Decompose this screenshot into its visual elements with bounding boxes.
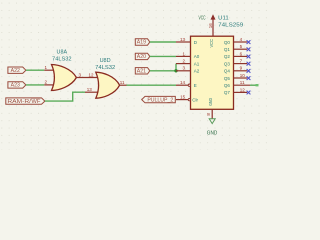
svg-text:74LS32: 74LS32 [52, 56, 72, 62]
svg-text:Q2: Q2 [224, 54, 231, 59]
svg-text:A23: A23 [11, 83, 20, 89]
svg-text:15: 15 [180, 95, 186, 100]
global label A23 [8, 82, 26, 88]
global label A20 [135, 53, 150, 59]
svg-text:VCC: VCC [209, 38, 214, 47]
svg-text:U8A: U8A [57, 49, 68, 55]
svg-text:A22: A22 [11, 68, 20, 74]
no-connect Q0 [247, 40, 251, 44]
pin 3 (A2) [176, 70, 191, 72]
IC U11 body [191, 36, 234, 109]
pin 9 (Q4) [234, 70, 248, 72]
svg-text:16: 16 [208, 23, 213, 29]
no-connect Q1 [247, 47, 251, 51]
or-gate U8D [96, 72, 120, 98]
svg-text:GND: GND [207, 130, 218, 136]
pin 5 (Q1) [234, 48, 248, 50]
svg-text:11: 11 [240, 80, 245, 85]
pin 11 (Q6) [234, 84, 251, 86]
svg-text:11: 11 [120, 80, 125, 85]
svg-text:A20: A20 [137, 54, 146, 60]
wire RAM-R/WF to U8D pin13 [45, 92, 85, 101]
svg-text:Q1: Q1 [224, 47, 231, 52]
svg-text:Clr: Clr [192, 97, 198, 102]
pin 14 (E) with bubble [176, 84, 188, 86]
junction node [174, 69, 177, 72]
svg-text:U8D: U8D [100, 58, 111, 64]
svg-text:14: 14 [180, 80, 186, 85]
pin 15 (Clr) with bubble [176, 99, 188, 101]
svg-text:Q4: Q4 [224, 69, 231, 74]
pin 13 (D) [176, 41, 191, 43]
pin 3 of U8A / pin 12 of U8D [76, 77, 99, 79]
global label RAM-R/WF [6, 98, 45, 104]
wire U8D out to U11 E pin [127, 84, 177, 86]
svg-text:74LS32: 74LS32 [95, 65, 115, 71]
wire A20 to U11 A0 [150, 55, 176, 57]
wire A21 to U11 A2 [150, 70, 176, 72]
pin 1 of U8A [44, 69, 55, 71]
svg-text:A19: A19 [137, 40, 146, 46]
wire A19 to U11 D [150, 41, 176, 43]
wire A22 to U8A pin1 [26, 69, 44, 71]
svg-text:Q7: Q7 [224, 90, 231, 95]
svg-text:13: 13 [87, 87, 93, 92]
global label PULLUP_2 [142, 96, 176, 102]
global label A21 [135, 68, 150, 74]
svg-text:13: 13 [180, 37, 186, 42]
global label A19 [135, 39, 150, 45]
no-connect Q3 [247, 62, 251, 66]
GND power symbol pin8 [211, 109, 213, 118]
pin 7 (Q3) [234, 63, 248, 65]
pin 6 (Q2) [234, 55, 248, 57]
svg-text:A1: A1 [194, 61, 200, 66]
svg-text:WF: WF [31, 99, 40, 105]
svg-text:RAM-R/: RAM-R/ [7, 99, 31, 105]
wire stub Q6 [250, 84, 259, 86]
pin 13 of U8D [85, 91, 99, 93]
wire junction up to A1 [175, 64, 177, 71]
svg-text:A0: A0 [194, 54, 200, 59]
pin 10 (Q5) [234, 77, 248, 79]
svg-text:GND: GND [208, 97, 213, 105]
svg-text:A21: A21 [137, 69, 146, 75]
svg-text:VCC: VCC [199, 16, 206, 22]
no-connect Q5 [247, 76, 251, 80]
global label A22 [8, 67, 26, 73]
pin 4 (Q0) [234, 41, 248, 43]
svg-text:PULLUP_2: PULLUP_2 [147, 98, 173, 104]
svg-text:12: 12 [240, 87, 246, 92]
svg-text:U11: U11 [218, 16, 229, 22]
no-connect Q4 [247, 69, 251, 73]
svg-text:Q5: Q5 [224, 76, 231, 81]
svg-text:A2: A2 [194, 69, 200, 74]
svg-text:E: E [194, 83, 197, 88]
pin 12 (Q7) [234, 91, 248, 93]
pin 1 (A0) [176, 55, 191, 57]
VCC power symbol pin16 [212, 19, 214, 36]
svg-text:10: 10 [240, 73, 246, 78]
no-connect Q2 [247, 55, 251, 59]
no-connect Q7 [247, 91, 251, 95]
svg-text:Q6: Q6 [224, 83, 231, 88]
wire A23 to U8A pin2 [26, 84, 44, 86]
svg-text:74LS259: 74LS259 [218, 22, 243, 28]
pin 2 of U8A [44, 84, 55, 86]
svg-text:Q3: Q3 [224, 61, 231, 66]
or-gate U8A [52, 65, 77, 91]
pin 11 of U8D [120, 84, 127, 86]
svg-text:12: 12 [89, 73, 95, 78]
svg-text:Q0: Q0 [224, 40, 231, 45]
pin 2 (A1) [176, 63, 191, 65]
